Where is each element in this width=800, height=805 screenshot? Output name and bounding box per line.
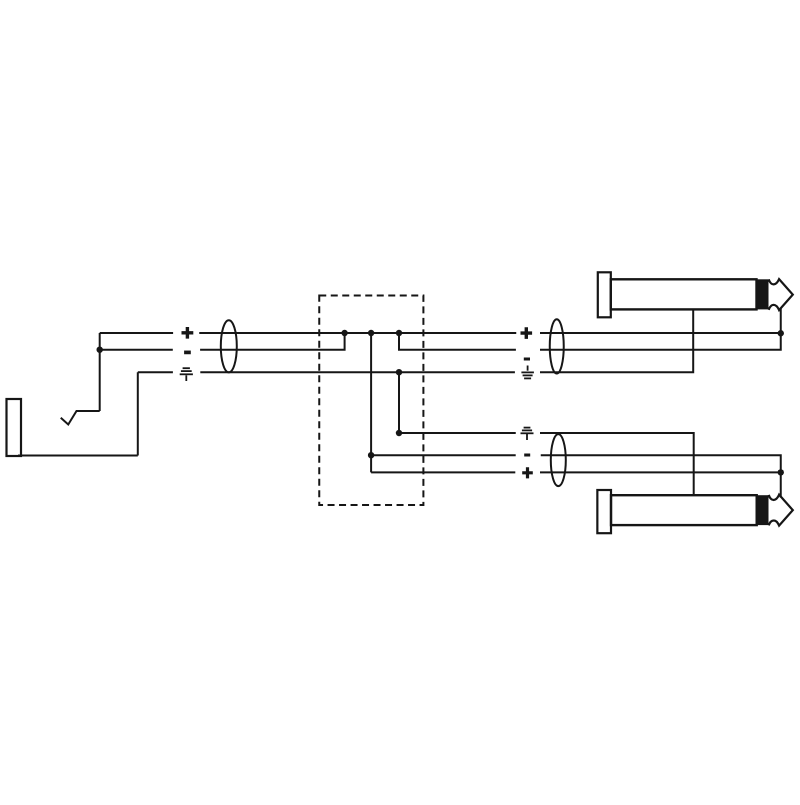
wire: - line (left group) xyxy=(100,333,345,350)
jack plug P1 barrel xyxy=(611,279,757,309)
+ label (top-right group) xyxy=(521,327,533,339)
wire: bottom - line xyxy=(371,455,781,472)
+ label (left group) xyxy=(182,327,194,339)
ground symbol (left group, inverted earth) xyxy=(180,368,193,381)
cable jacket ellipse (top-right cable) xyxy=(550,319,564,373)
node: tip junction (top jack) xyxy=(778,330,784,336)
node: + to top-right - branch xyxy=(396,330,402,336)
jack plug P2 cap xyxy=(597,490,611,533)
jack plug P1 insulator band xyxy=(757,279,769,309)
node: ground branch xyxy=(396,369,402,375)
wire: ground line (left to top-right) xyxy=(138,309,693,372)
cable jacket ellipse (bottom-right cable) xyxy=(551,434,566,486)
wire: J1 tip vertical xyxy=(99,333,101,411)
- label (top-right group) xyxy=(524,358,530,361)
jack plug P2 insulator band xyxy=(757,495,769,525)
wire: bottom ground line xyxy=(399,433,694,495)
wire: vertical + to bottom group xyxy=(370,333,372,472)
- label (bottom group) xyxy=(524,454,530,457)
switch contact (tip spring) of J1 xyxy=(61,411,100,425)
wire: bottom + line xyxy=(371,471,781,473)
wire: vertical ground to bottom group xyxy=(398,372,400,433)
wire: vertical up to ground line xyxy=(137,372,139,455)
left connector J1 (jack socket body) xyxy=(7,399,22,456)
splitter junction box (dashed) xyxy=(319,296,423,506)
node: bottom - branch xyxy=(368,452,374,458)
wire: sleeve return from J1 bottom xyxy=(18,455,138,457)
node: + to bottom branch xyxy=(368,330,374,336)
node: bottom ground corner xyxy=(396,430,402,436)
jack plug P2 barrel xyxy=(611,495,757,525)
wire: bottom jack tip lead xyxy=(780,472,782,497)
wire: jog from + line to top-right - line xyxy=(399,333,781,350)
node: J1 tip junction xyxy=(97,347,103,353)
cable jacket ellipse (left cable) xyxy=(221,320,237,372)
jack plug P1 cap xyxy=(598,272,611,317)
ground symbol (bottom group, inverted earth) xyxy=(521,428,534,440)
jack plug P1 tip xyxy=(769,279,793,310)
ground symbol (top-right group, earth) xyxy=(521,366,534,379)
wire: top jack tip lead xyxy=(780,308,782,334)
+ label (bottom group) xyxy=(522,467,533,478)
wire: + line (left group) xyxy=(100,332,781,334)
node: - joins + xyxy=(341,330,347,336)
node: tip junction (bottom jack) xyxy=(778,469,784,475)
jack plug P2 tip xyxy=(769,495,793,526)
- label (left group) xyxy=(184,351,191,355)
